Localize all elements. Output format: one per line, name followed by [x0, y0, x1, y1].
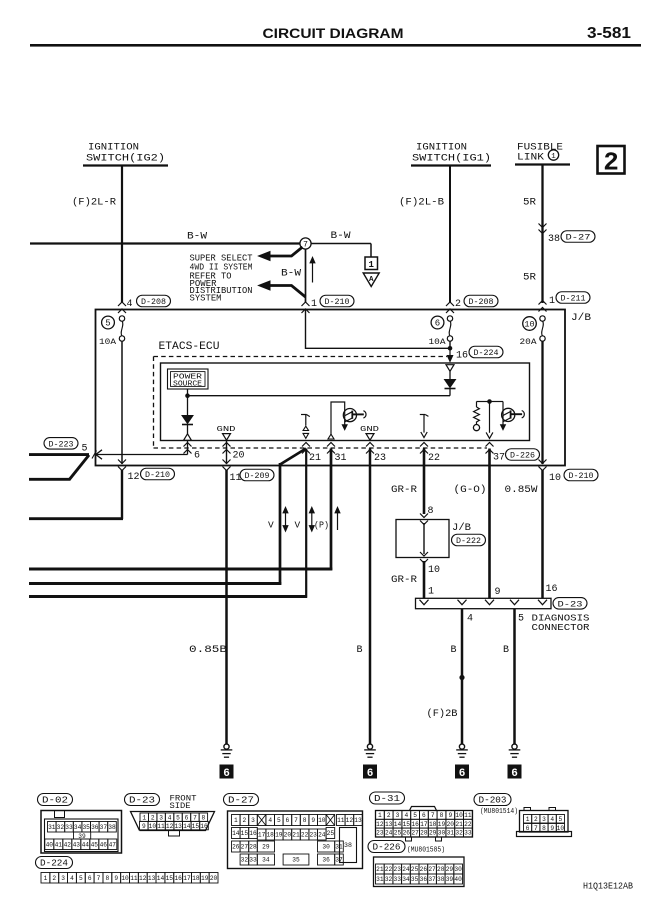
svg-text:34: 34	[402, 876, 410, 883]
POWER SOURCE block	[168, 369, 209, 389]
svg-text:42: 42	[64, 841, 72, 848]
resistor R1	[477, 401, 490, 403]
transistor Q1	[343, 409, 356, 422]
svg-text:7: 7	[97, 875, 101, 882]
wire 0.85B to ground	[225, 470, 228, 744]
svg-text:2: 2	[151, 814, 155, 821]
wire diag pin5 to ground	[513, 609, 516, 745]
svg-text:46: 46	[100, 841, 108, 848]
svg-text:8: 8	[440, 812, 444, 819]
connector marker 11 D-209	[223, 460, 231, 464]
svg-text:3: 3	[396, 812, 400, 819]
svg-text:33: 33	[394, 876, 402, 883]
svg-text:32: 32	[455, 830, 463, 837]
connector marker 10 D-210	[539, 460, 547, 464]
svg-text:5: 5	[79, 875, 83, 882]
svg-text:1: 1	[526, 816, 530, 823]
svg-text:SOURCE: SOURCE	[173, 380, 202, 388]
svg-text:24: 24	[385, 830, 393, 837]
svg-text:1: 1	[368, 260, 374, 270]
transistor Q2 emitter arrow	[500, 425, 505, 430]
wire pin23 to ground	[369, 449, 372, 745]
svg-text:20: 20	[447, 821, 455, 828]
transistor Q2	[502, 408, 515, 421]
svg-text:(G-O): (G-O)	[454, 484, 487, 496]
wire diag pin4 to ground	[461, 609, 464, 745]
circled 1 fusible link	[548, 150, 558, 161]
svg-text:21: 21	[455, 821, 463, 828]
marker out of J/B D-222	[420, 552, 428, 556]
pin marker 22	[420, 443, 428, 447]
arrow up beside wire	[312, 259, 314, 283]
svg-text:35: 35	[82, 824, 90, 831]
svg-text:38: 38	[548, 234, 560, 245]
svg-text:6: 6	[88, 875, 92, 882]
J/B D-222 box	[396, 520, 449, 558]
ETACS inner box	[161, 363, 530, 441]
svg-text:8: 8	[542, 825, 546, 832]
arrow 16 into ETACS	[449, 348, 451, 357]
pin37 junction dot	[487, 399, 492, 404]
svg-text:D-27: D-27	[228, 795, 254, 806]
svg-text:33: 33	[249, 857, 257, 864]
wire down to boxed 1	[370, 244, 372, 258]
svg-text:23: 23	[374, 453, 386, 464]
oval label D-222	[452, 534, 486, 546]
svg-text:D-27: D-27	[566, 233, 591, 243]
svg-text:12: 12	[346, 817, 354, 824]
svg-text:(MU801585): (MU801585)	[407, 847, 445, 855]
svg-text:9: 9	[114, 875, 118, 882]
svg-text:(MU801514): (MU801514)	[480, 808, 518, 816]
terminal bar IG2	[83, 164, 168, 166]
svg-text:7: 7	[294, 817, 298, 824]
connector D-23 body	[131, 812, 215, 831]
inline marker 38 D-27	[539, 224, 547, 228]
svg-text:8: 8	[202, 814, 206, 821]
svg-text:25: 25	[394, 830, 402, 837]
connector D-203 label	[474, 794, 511, 806]
svg-text:29: 29	[429, 830, 437, 837]
svg-text:(P): (P)	[314, 520, 329, 531]
boxed numeral 2	[598, 146, 625, 174]
svg-text:33: 33	[65, 824, 73, 831]
svg-text:19: 19	[201, 875, 209, 882]
svg-text:25: 25	[411, 866, 419, 873]
svg-text:J/B: J/B	[571, 312, 591, 324]
svg-text:40: 40	[46, 841, 54, 848]
oval label D-210 bottom left	[141, 468, 175, 480]
connector D-23 label	[125, 794, 160, 806]
svg-text:5: 5	[82, 444, 88, 455]
connector D-226 label	[368, 841, 405, 853]
svg-text:IGNITION: IGNITION	[416, 143, 467, 154]
svg-text:1: 1	[428, 587, 434, 598]
wire 5R vertical	[541, 165, 543, 304]
svg-text:V: V	[295, 520, 301, 531]
pin 16 entry triangle	[446, 365, 454, 372]
svg-text:39: 39	[446, 876, 454, 883]
svg-text:5: 5	[277, 817, 281, 824]
fuse F5 symbol	[119, 316, 124, 321]
svg-text:11: 11	[130, 875, 138, 882]
wire 10 down to diagnosis connector	[541, 470, 544, 598]
terminal bar fusible link	[515, 163, 570, 165]
svg-text:24: 24	[402, 866, 410, 873]
pin marker 21	[302, 443, 310, 447]
svg-text:11: 11	[157, 823, 165, 830]
svg-text:30: 30	[454, 866, 462, 873]
pin marker 6	[184, 443, 192, 447]
arrow updown second	[311, 509, 313, 530]
svg-text:9: 9	[142, 823, 146, 830]
svg-text:D-209: D-209	[245, 471, 270, 481]
svg-text:6: 6	[223, 768, 230, 780]
svg-text:GR-R: GR-R	[391, 575, 417, 586]
svg-text:21: 21	[376, 866, 384, 873]
resistor terminal circle	[473, 425, 479, 431]
svg-text:5R: 5R	[523, 198, 536, 209]
svg-text:V: V	[268, 520, 274, 531]
svg-text:3-581: 3-581	[587, 25, 631, 42]
pin marker 20	[226, 440, 228, 464]
svg-text:26: 26	[420, 866, 428, 873]
svg-text:1: 1	[311, 299, 317, 310]
svg-text:13: 13	[354, 817, 362, 824]
svg-text:10: 10	[549, 473, 561, 484]
svg-text:15: 15	[241, 830, 249, 837]
svg-text:D-23: D-23	[558, 600, 583, 610]
svg-text:12: 12	[376, 821, 384, 828]
pin triangle 6	[184, 434, 192, 441]
svg-text:D-223: D-223	[49, 440, 74, 450]
svg-text:6: 6	[459, 768, 466, 780]
wire fuse10 down through JB	[541, 341, 543, 464]
svg-text:34: 34	[262, 857, 270, 864]
pin22 input arrow symbol	[420, 414, 425, 416]
svg-text:D-226: D-226	[373, 842, 401, 853]
triangle A connector symbol	[363, 273, 379, 287]
svg-text:D-203: D-203	[479, 795, 507, 806]
svg-text:B: B	[503, 645, 509, 656]
arrow updown first	[285, 509, 287, 530]
wire from node 7 down to J/B	[305, 249, 307, 302]
svg-text:47: 47	[109, 841, 117, 848]
svg-text:44: 44	[82, 841, 90, 848]
svg-text:3: 3	[542, 816, 546, 823]
svg-text:16: 16	[411, 821, 419, 828]
svg-text:14: 14	[157, 875, 165, 882]
wire 22 to diagnosis connector	[423, 561, 426, 598]
svg-text:21: 21	[292, 832, 300, 839]
svg-text:10: 10	[121, 875, 129, 882]
wire through D-222 box	[423, 523, 425, 554]
svg-text:32: 32	[57, 824, 65, 831]
svg-text:B: B	[451, 645, 457, 656]
connector D-224 strip	[41, 873, 50, 884]
svg-text:1: 1	[44, 875, 48, 882]
svg-text:D-211: D-211	[561, 294, 586, 304]
svg-text:31: 31	[48, 824, 56, 831]
pin marker 37	[486, 443, 494, 447]
svg-text:31: 31	[376, 876, 384, 883]
svg-text:3: 3	[159, 814, 163, 821]
svg-text:22: 22	[385, 866, 393, 873]
svg-text:0.85B: 0.85B	[189, 644, 227, 656]
svg-text:28: 28	[249, 844, 257, 851]
svg-text:(F)2L-R: (F)2L-R	[72, 197, 116, 209]
svg-text:SWITCH(IG1): SWITCH(IG1)	[412, 153, 491, 165]
wire pin21 diagonal thick	[280, 449, 306, 465]
svg-text:4: 4	[268, 817, 272, 824]
svg-text:25: 25	[327, 830, 335, 837]
svg-text:28: 28	[437, 866, 445, 873]
svg-text:ETACS-ECU: ETACS-ECU	[159, 341, 220, 353]
svg-text:0.85W: 0.85W	[505, 485, 538, 496]
pin triangle 31	[328, 434, 334, 439]
svg-text:D-02: D-02	[42, 795, 68, 806]
svg-text:35: 35	[292, 857, 300, 864]
svg-text:9: 9	[448, 812, 452, 819]
svg-text:16: 16	[546, 584, 558, 595]
svg-text:H1Q13E12AB: H1Q13E12AB	[583, 882, 634, 892]
svg-text:13: 13	[174, 823, 182, 830]
svg-text:2: 2	[387, 812, 391, 819]
wire B-W right of node	[311, 243, 371, 245]
svg-text:D-224: D-224	[474, 348, 499, 358]
svg-text:4: 4	[550, 816, 554, 823]
svg-text:27: 27	[428, 866, 436, 873]
svg-text:22: 22	[301, 832, 309, 839]
svg-text:10: 10	[455, 812, 463, 819]
svg-text:20A: 20A	[520, 337, 538, 347]
svg-text:22: 22	[428, 453, 440, 464]
svg-text:4: 4	[168, 814, 172, 821]
svg-text:18: 18	[192, 875, 200, 882]
fuse circled 5	[102, 316, 115, 329]
svg-text:D-210: D-210	[569, 471, 594, 481]
svg-text:23: 23	[394, 866, 402, 873]
connector marker fusible link wire	[539, 301, 547, 305]
svg-text:LINK: LINK	[517, 153, 544, 164]
oval label D-226	[506, 449, 540, 461]
svg-text:IGNITION: IGNITION	[88, 143, 139, 154]
fuse F6 symbol	[447, 316, 452, 321]
connector D-224 label	[36, 857, 73, 869]
svg-text:3: 3	[61, 875, 65, 882]
connector D-203 body	[520, 811, 569, 833]
svg-text:43: 43	[73, 841, 81, 848]
GND triangle right	[366, 434, 374, 441]
svg-text:10: 10	[557, 825, 565, 832]
svg-text:B: B	[357, 645, 363, 656]
svg-text:30: 30	[322, 844, 330, 851]
external thick wire stub upper	[29, 453, 89, 456]
svg-text:15: 15	[166, 875, 174, 882]
svg-text:16: 16	[456, 351, 468, 362]
svg-text:6: 6	[286, 817, 290, 824]
svg-text:GR-R: GR-R	[391, 485, 417, 496]
external thick wire stub diagonal	[70, 455, 90, 479]
fuse circled 10	[523, 317, 537, 331]
svg-text:23: 23	[309, 832, 317, 839]
svg-text:2: 2	[603, 148, 619, 178]
svg-text:14: 14	[394, 821, 402, 828]
svg-text:6: 6	[194, 451, 200, 462]
svg-text:16: 16	[174, 875, 182, 882]
fuse circled 6	[431, 316, 444, 329]
ground G4	[512, 744, 517, 749]
connector D-31 label	[370, 792, 405, 804]
svg-text:14: 14	[232, 830, 240, 837]
wire 12 down and left	[121, 470, 123, 519]
oval label D-208 right	[464, 295, 498, 307]
svg-text:19: 19	[438, 821, 446, 828]
svg-text:17: 17	[420, 821, 428, 828]
connector D-02 label	[38, 794, 73, 806]
svg-text:B-W: B-W	[331, 231, 351, 242]
svg-text:9: 9	[550, 825, 554, 832]
junction dot fuse6	[448, 346, 453, 351]
svg-text:8: 8	[428, 506, 434, 517]
svg-text:36: 36	[322, 857, 330, 864]
ground G3	[459, 744, 464, 749]
header rule	[30, 44, 641, 47]
svg-text:13: 13	[385, 821, 393, 828]
junction dot power source	[185, 393, 190, 398]
connector D-226 body	[374, 857, 465, 887]
svg-text:27: 27	[411, 830, 419, 837]
svg-text:SIDE: SIDE	[170, 802, 191, 811]
svg-text:30: 30	[438, 830, 446, 837]
svg-text:12: 12	[128, 472, 140, 483]
connector marker 2 D-208	[446, 302, 454, 306]
svg-text:10: 10	[428, 565, 440, 576]
svg-text:37: 37	[428, 876, 436, 883]
svg-text:5: 5	[105, 319, 110, 329]
svg-text:12: 12	[166, 823, 174, 830]
svg-text:41: 41	[55, 841, 63, 848]
transistor Q1 base loop from pin31	[331, 402, 345, 435]
svg-text:22: 22	[464, 821, 472, 828]
svg-text:27: 27	[241, 844, 249, 851]
svg-text:7: 7	[193, 814, 197, 821]
wire IG1 2L-B vertical	[449, 166, 451, 303]
svg-text:(F)2L-B: (F)2L-B	[399, 197, 444, 209]
svg-text:14: 14	[183, 823, 191, 830]
svg-text:24: 24	[318, 832, 326, 839]
svg-text:31: 31	[447, 830, 455, 837]
wire to diode D1	[187, 396, 189, 416]
pin marker 23	[366, 443, 374, 447]
svg-text:D-224: D-224	[40, 858, 68, 869]
svg-text:J/B: J/B	[452, 522, 471, 534]
svg-text:SWITCH(IG2): SWITCH(IG2)	[86, 153, 165, 165]
diode D1	[182, 416, 193, 424]
svg-text:A: A	[369, 276, 374, 284]
svg-text:20: 20	[210, 875, 218, 882]
svg-text:45: 45	[91, 841, 99, 848]
svg-text:D-208: D-208	[141, 297, 166, 307]
connector marker 4 D-208	[118, 302, 126, 306]
svg-text:1: 1	[234, 817, 238, 824]
svg-text:37: 37	[493, 453, 505, 464]
wire pin37 down arrow	[489, 402, 491, 433]
svg-text:4: 4	[404, 812, 408, 819]
svg-text:37: 37	[335, 857, 343, 864]
svg-text:B-W: B-W	[187, 232, 207, 243]
svg-text:34: 34	[74, 824, 82, 831]
svg-text:6: 6	[511, 768, 518, 780]
svg-text:10A: 10A	[429, 337, 447, 347]
wire pin21 straight down	[305, 449, 307, 598]
svg-text:17: 17	[258, 832, 266, 839]
wire fuse6 to junction	[449, 341, 451, 350]
svg-text:11: 11	[464, 812, 472, 819]
svg-text:11: 11	[337, 817, 345, 824]
svg-text:4: 4	[127, 299, 133, 310]
svg-text:36: 36	[420, 876, 428, 883]
svg-text:5: 5	[413, 812, 417, 819]
svg-text:10A: 10A	[99, 337, 117, 347]
svg-text:CONNECTOR: CONNECTOR	[532, 622, 590, 633]
svg-text:2: 2	[52, 875, 56, 882]
pin marker 31	[327, 443, 335, 447]
svg-text:28: 28	[420, 830, 428, 837]
svg-text:40: 40	[454, 876, 462, 883]
svg-text:20: 20	[233, 451, 245, 462]
svg-text:1: 1	[551, 153, 556, 161]
junction dot splice	[459, 675, 464, 680]
connector marker 1 D-210 top	[302, 302, 310, 306]
svg-text:32: 32	[241, 857, 249, 864]
svg-text:33: 33	[464, 830, 472, 837]
svg-text:6: 6	[526, 825, 530, 832]
svg-text:4: 4	[70, 875, 74, 882]
svg-text:15: 15	[403, 821, 411, 828]
connector marker D-223 exit	[96, 450, 102, 459]
connector marker 12 D-210	[118, 460, 126, 464]
wire B-W horizontal main	[30, 242, 301, 244]
wire pin31 down	[330, 449, 333, 571]
svg-text:37: 37	[100, 824, 108, 831]
diode D2 from pin16	[449, 371, 451, 379]
svg-text:2: 2	[243, 817, 247, 824]
node circled 7	[300, 238, 311, 250]
connector D-31 body	[410, 807, 437, 811]
svg-text:D-210: D-210	[325, 297, 350, 307]
svg-text:20: 20	[284, 832, 292, 839]
svg-text:D-222: D-222	[456, 536, 481, 546]
svg-text:15: 15	[192, 823, 200, 830]
svg-text:31: 31	[335, 453, 347, 464]
svg-text:18: 18	[266, 832, 274, 839]
svg-text:D-23: D-23	[129, 795, 155, 806]
svg-text:38: 38	[344, 842, 352, 849]
svg-text:7: 7	[303, 241, 308, 250]
svg-text:38: 38	[437, 876, 445, 883]
wire fuse5 down to pin 12	[121, 341, 123, 464]
svg-text:16: 16	[249, 830, 257, 837]
connector D-02 body	[41, 811, 122, 854]
svg-text:23: 23	[376, 830, 384, 837]
svg-text:2: 2	[534, 816, 538, 823]
svg-text:9: 9	[495, 587, 501, 598]
oval label D-224	[469, 346, 503, 358]
svg-text:32: 32	[385, 876, 393, 883]
ETACS dashed boundary	[154, 356, 448, 358]
wire power source bus	[188, 395, 451, 397]
